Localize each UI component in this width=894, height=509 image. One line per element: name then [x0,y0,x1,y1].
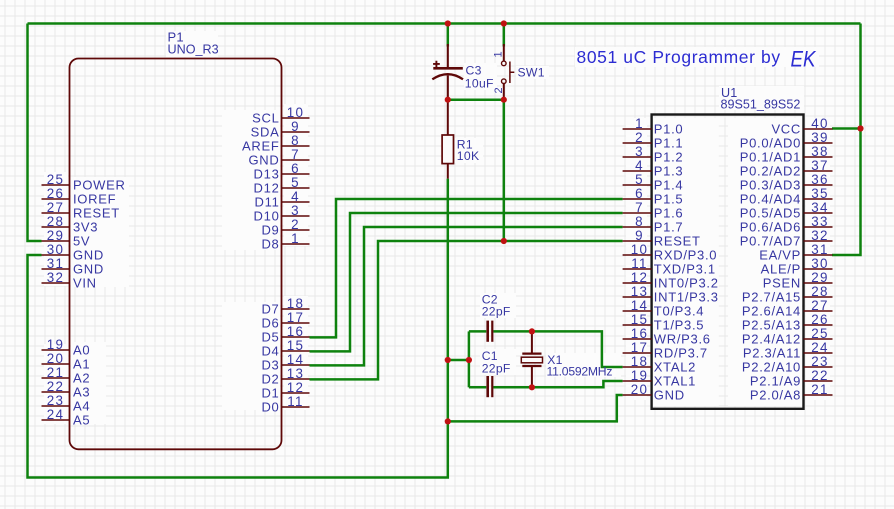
svg-text:GND: GND [249,153,280,168]
svg-text:35: 35 [811,186,829,201]
svg-text:6: 6 [635,186,644,201]
pin 13 D2 of P1 [261,366,309,387]
pin 5 D12 of P1 [254,175,310,196]
pin 18 XTAL2 of U1 [623,354,696,375]
svg-text:P0.7/AD7: P0.7/AD7 [740,234,801,249]
svg-text:19: 19 [631,368,649,383]
svg-text:UNO_R3: UNO_R3 [168,42,219,56]
svg-text:11: 11 [631,256,648,271]
svg-text:P1.4: P1.4 [654,178,684,193]
svg-text:32: 32 [47,270,65,285]
pin 14 D3 of P1 [261,352,309,373]
wire C2 left [469,330,486,333]
pin 34 P0.5/AD5 of U1 [740,200,833,221]
pin 17 D6 of P1 [261,310,309,331]
svg-text:22pF: 22pF [482,304,511,318]
svg-text:29: 29 [811,270,829,285]
pin 31 EA/VP of U1 [759,242,832,263]
svg-text:5V: 5V [73,234,90,249]
capacitor C2 22pF [488,321,493,342]
pin 9 SDA of P1 [251,119,310,140]
svg-text:A3: A3 [73,385,90,400]
svg-text:P2.2/A10: P2.2/A10 [742,360,801,375]
wire D3 to P1.7 [310,227,623,365]
pin 1 D8 of P1 [261,231,309,252]
svg-text:SCL: SCL [252,111,279,126]
pin 32 P0.7/AD7 of U1 [740,228,833,249]
svg-text:27: 27 [811,298,829,313]
pin 21 A2 of P1 [42,365,91,386]
junction VCC [857,125,863,131]
svg-text:22: 22 [47,379,65,394]
svg-text:P0.2/AD2: P0.2/AD2 [740,164,801,179]
wire C2 to XTAL2 pin18 [493,331,622,367]
junction GND/C link [445,357,451,363]
pin 30 GND of P1 [42,242,105,263]
svg-text:21: 21 [47,365,65,380]
svg-text:D4: D4 [261,344,279,359]
svg-text:A1: A1 [73,357,90,372]
svg-text:GND: GND [73,262,104,277]
pin 22 A3 of P1 [42,379,91,400]
wire D2 to RESET [310,241,623,379]
svg-text:10K: 10K [457,149,480,163]
svg-text:8: 8 [291,133,300,148]
svg-text:28: 28 [47,214,65,229]
svg-text:18: 18 [287,296,305,311]
svg-text:25: 25 [47,172,65,187]
wire reset node C3/R1/SW1 [448,98,504,101]
svg-text:26: 26 [811,312,829,327]
wire SW1 to RESET pin [503,100,506,241]
svg-text:VCC: VCC [771,122,801,137]
pin 24 A5 of P1 [42,407,91,428]
svg-text:XTAL2: XTAL2 [654,360,696,375]
svg-text:P0.3/AD3: P0.3/AD3 [740,178,801,193]
pin 19 XTAL1 of U1 [623,368,696,389]
wire +5V to VCC pin40 [832,127,861,130]
svg-text:10uF: 10uF [465,77,494,91]
wire GND: P1 pin30 left rail, bottom rail, up to R1 [28,179,448,478]
junction X1 bottom [529,384,535,390]
wire D4 to P1.6 [310,213,623,351]
pin 29 PSEN of U1 [763,270,833,291]
pin 39 P0.0/AD0 of U1 [740,130,833,151]
pin 13 INT1/P3.3 of U1 [623,284,719,305]
svg-text:38: 38 [811,144,829,159]
svg-text:32: 32 [811,228,829,243]
pin 10 SCL of P1 [252,105,309,126]
svg-text:15: 15 [287,338,305,353]
svg-text:5: 5 [291,175,300,190]
svg-text:D5: D5 [261,330,279,345]
svg-text:SDA: SDA [251,125,280,140]
svg-text:P2.5/A13: P2.5/A13 [742,318,801,333]
svg-text:AREF: AREF [242,139,279,154]
svg-text:23: 23 [47,393,65,408]
pin 15 D4 of P1 [261,338,309,359]
svg-text:T1/P3.5: T1/P3.5 [654,318,704,333]
svg-text:31: 31 [811,242,829,257]
pin 23 A4 of P1 [42,393,91,414]
svg-text:POWER: POWER [73,178,126,193]
svg-text:GND: GND [73,248,104,263]
svg-text:15: 15 [631,312,649,327]
svg-text:2: 2 [291,217,300,232]
svg-text:14: 14 [287,352,305,367]
pin 7 P1.6 of U1 [623,200,684,221]
pin 18 D7 of P1 [261,296,309,317]
pin 3 P1.2 of U1 [623,144,684,165]
pin 1 P1.0 of U1 [623,116,684,137]
wire SW1 top [503,24,506,47]
svg-text:4: 4 [291,189,300,204]
svg-text:30: 30 [47,242,65,257]
crystal X1 11.0592MHz [521,331,542,387]
svg-text:VIN: VIN [73,276,97,291]
pin 27 RESET of P1 [42,200,120,221]
svg-text:36: 36 [811,172,829,187]
svg-text:GND: GND [654,388,685,403]
svg-text:1: 1 [291,231,300,246]
svg-text:P0.4/AD4: P0.4/AD4 [740,192,801,207]
svg-text:3: 3 [635,144,644,159]
pin 33 P0.6/AD6 of U1 [740,214,833,235]
svg-text:9: 9 [291,119,300,134]
svg-text:3: 3 [291,203,300,218]
pin 30 ALE/P of U1 [761,256,833,277]
svg-text:P1.7: P1.7 [654,220,684,235]
svg-text:A4: A4 [73,399,90,414]
pin 2 D9 of P1 [261,217,309,238]
pin 15 T1/P3.5 of U1 [623,312,705,333]
svg-text:P1.5: P1.5 [654,192,684,207]
svg-text:2: 2 [493,87,505,93]
svg-text:12: 12 [631,270,649,285]
svg-text:D3: D3 [261,358,279,373]
wire 5V to P1 pin 29 [28,24,42,242]
svg-text:D12: D12 [254,181,280,196]
switch SW1 push button [493,44,515,100]
pin 37 P0.2/AD2 of U1 [740,158,833,179]
pin 26 IOREF of P1 [42,186,117,207]
junction GND pin20 [445,418,451,424]
pin 4 P1.3 of U1 [623,158,684,179]
svg-text:IOREF: IOREF [73,192,116,207]
pin 22 P2.1/A9 of U1 [750,368,833,389]
pin 29 5V of P1 [42,228,91,249]
pin 31 GND of P1 [42,256,105,277]
junction SW1/+5V [501,20,507,26]
wire C1 left [469,386,486,389]
pin 4 D11 of P1 [255,189,310,210]
pin 23 P2.2/A10 of U1 [742,354,833,375]
svg-text:RXD/P3.0: RXD/P3.0 [654,248,717,263]
svg-text:25: 25 [811,326,829,341]
svg-text:13: 13 [287,366,305,381]
svg-text:A0: A0 [73,343,90,358]
svg-text:18: 18 [631,354,649,369]
pin 25 P2.4/A12 of U1 [742,326,833,347]
svg-text:24: 24 [47,407,65,422]
svg-text:P0.1/AD1: P0.1/AD1 [740,150,801,165]
wire C3 top [447,24,450,47]
pin 21 P2.0/A8 of U1 [750,382,833,403]
svg-text:4: 4 [635,158,644,173]
svg-text:D1: D1 [261,386,279,401]
svg-text:SW1: SW1 [518,65,545,79]
wire GND link to C1/C2 bar [448,359,469,362]
svg-text:1: 1 [493,51,505,57]
svg-text:D9: D9 [261,223,279,238]
svg-text:6: 6 [291,161,300,176]
svg-text:37: 37 [811,158,829,173]
pin 12 D1 of P1 [261,380,309,401]
svg-text:D13: D13 [254,167,280,182]
svg-text:17: 17 [287,310,305,325]
wire D5 to P1.5 [310,199,623,337]
resistor R1 10K [442,100,453,179]
pin 6 P1.5 of U1 [623,186,684,207]
pin 40 VCC of U1 [771,116,832,137]
svg-text:10: 10 [631,242,649,257]
svg-text:D8: D8 [261,237,279,252]
pin 20 GND of U1 [623,382,685,403]
svg-text:17: 17 [631,340,649,355]
svg-text:D11: D11 [255,195,280,210]
svg-text:P2.4/A12: P2.4/A12 [742,332,801,347]
svg-text:16: 16 [631,326,649,341]
pin 5 P1.4 of U1 [623,172,684,193]
svg-text:7: 7 [635,200,644,215]
IC U1 89S51_89S52 body [652,115,804,409]
svg-text:P1.0: P1.0 [654,122,684,137]
junction C3/+5V [445,20,451,26]
pin 36 P0.3/AD3 of U1 [740,172,833,193]
pin 11 TXD/P3.1 of U1 [623,256,716,277]
svg-text:RD/P3.7: RD/P3.7 [654,346,708,361]
connector P1 UNO_R3 body [70,59,282,450]
svg-text:20: 20 [631,382,649,397]
junction C bar [466,357,472,363]
pin 25 POWER of P1 [42,172,126,193]
svg-text:A5: A5 [73,413,90,428]
svg-text:13: 13 [631,284,649,299]
pin 7 GND of P1 [249,147,310,168]
svg-text:33: 33 [811,214,829,229]
svg-text:21: 21 [811,382,829,397]
svg-text:INT0/P3.2: INT0/P3.2 [654,276,719,291]
svg-text:P1.6: P1.6 [654,206,684,221]
svg-text:D7: D7 [261,302,279,317]
svg-text:P0.6/AD6: P0.6/AD6 [740,220,801,235]
pin 27 P2.6/A14 of U1 [742,298,833,319]
svg-text:24: 24 [811,340,829,355]
svg-text:7: 7 [291,147,300,162]
junction C3/R1 [445,97,451,103]
svg-text:P2.0/A8: P2.0/A8 [750,388,801,403]
svg-text:10: 10 [287,105,305,120]
svg-text:EA/VP: EA/VP [759,248,801,263]
svg-text:D2: D2 [261,372,279,387]
pin 28 P2.7/A15 of U1 [742,284,833,305]
pin 20 A1 of P1 [42,351,91,372]
wire +5V right rail to EA/VP pin31 [832,24,861,256]
wire +5V top rail [28,22,861,25]
junction SW1/reset node [501,97,507,103]
pin 28 3V3 of P1 [42,214,99,235]
pin 32 VIN of P1 [42,270,97,291]
svg-text:12: 12 [287,380,305,395]
pin 26 P2.5/A13 of U1 [742,312,833,333]
svg-text:P0.0/AD0: P0.0/AD0 [740,136,801,151]
svg-text:EK: EK [791,47,817,72]
svg-text:28: 28 [811,284,829,299]
pin 38 P0.1/AD1 of U1 [740,144,833,165]
svg-text:XTAL1: XTAL1 [654,374,696,389]
svg-text:D10: D10 [254,209,280,224]
svg-text:P0.5/AD5: P0.5/AD5 [740,206,801,221]
svg-text:22pF: 22pF [482,362,511,376]
junction RESET row [501,238,507,244]
svg-text:TXD/P3.1: TXD/P3.1 [654,262,716,277]
svg-text:26: 26 [47,186,65,201]
wire C1 to XTAL1 pin19 [493,381,622,387]
svg-text:19: 19 [47,337,65,352]
svg-text:D0: D0 [261,400,279,415]
svg-text:23: 23 [811,354,829,369]
svg-text:16: 16 [287,324,305,339]
svg-text:P2.1/A9: P2.1/A9 [750,374,801,389]
svg-text:1: 1 [635,116,644,131]
svg-text:9: 9 [635,228,644,243]
svg-text:P2.3/A11: P2.3/A11 [743,346,801,361]
svg-text:RESET: RESET [654,234,701,249]
svg-text:34: 34 [811,200,829,215]
svg-text:P1.1: P1.1 [654,136,684,151]
svg-text:8051 uC Programmer by: 8051 uC Programmer by [577,47,781,67]
svg-text:2: 2 [635,130,644,145]
pin 2 P1.1 of U1 [623,130,684,151]
svg-text:A2: A2 [73,371,90,386]
svg-text:27: 27 [47,200,65,215]
pin 11 D0 of P1 [261,394,309,415]
svg-text:20: 20 [47,351,65,366]
svg-text:C3: C3 [466,64,482,78]
pin 12 INT0/P3.2 of U1 [623,270,719,291]
wire C1/C2 common bar [468,331,471,387]
pin 14 T0/P3.4 of U1 [623,298,705,319]
capacitor C3 10uF polarized [432,44,463,100]
pin 8 AREF of P1 [242,133,309,154]
svg-text:5: 5 [635,172,644,187]
svg-text:22: 22 [811,368,829,383]
pin 8 P1.7 of U1 [623,214,684,235]
svg-text:29: 29 [47,228,65,243]
svg-text:D6: D6 [261,316,279,331]
pin 17 RD/P3.7 of U1 [623,340,708,361]
svg-text:14: 14 [631,298,649,313]
svg-text:RESET: RESET [73,206,120,221]
capacitor C1 22pF [488,376,493,397]
svg-text:30: 30 [811,256,829,271]
junction X1 top [529,328,535,334]
svg-text:39: 39 [811,130,829,145]
wire U1 GND pin20 to ground [448,395,623,421]
svg-text:11: 11 [287,394,304,409]
svg-text:P2.6/A14: P2.6/A14 [742,304,801,319]
svg-text:P1.3: P1.3 [654,164,684,179]
pin 16 D5 of P1 [261,324,309,345]
pin 19 A0 of P1 [42,337,91,358]
svg-text:31: 31 [47,256,65,271]
svg-text:INT1/P3.3: INT1/P3.3 [654,290,719,305]
svg-text:P1.2: P1.2 [654,150,684,165]
svg-text:PSEN: PSEN [763,276,801,291]
pin 10 RXD/P3.0 of U1 [623,242,718,263]
svg-text:P2.7/A15: P2.7/A15 [742,290,801,305]
pin 16 WR/P3.6 of U1 [623,326,711,347]
svg-text:WR/P3.6: WR/P3.6 [654,332,711,347]
svg-text:40: 40 [811,116,829,131]
pin 6 D13 of P1 [254,161,310,182]
svg-text:89S51_89S52: 89S51_89S52 [721,97,801,111]
pin 24 P2.3/A11 of U1 [743,340,833,361]
svg-text:T0/P3.4: T0/P3.4 [654,304,704,319]
pin 3 D10 of P1 [254,203,310,224]
svg-text:8: 8 [635,214,644,229]
svg-text:3V3: 3V3 [73,220,98,235]
svg-text:ALE/P: ALE/P [761,262,801,277]
pin 35 P0.4/AD4 of U1 [740,186,833,207]
pin 9 RESET of U1 [623,228,701,249]
svg-text:11.0592MHz: 11.0592MHz [547,364,613,378]
